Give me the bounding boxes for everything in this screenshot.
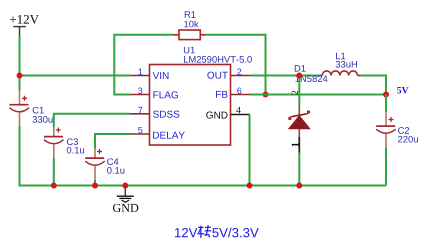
resistor R1 10k — [174, 30, 206, 40]
node 5V junction — [383, 92, 389, 98]
net label 5V — [397, 87, 408, 94]
node C3/rail — [51, 183, 57, 189]
wire R1 left to FLAG pin — [114, 35, 173, 95]
wire bottom ground rail — [54, 185, 386, 187]
inductor L1 33uH — [321, 53, 361, 76]
capacitor C4 0.1u — [85, 149, 105, 181]
node junction +12V/VIN/C1 — [17, 73, 23, 79]
pin 2 OUT — [207, 69, 250, 79]
capacitor C3 0.1u — [44, 127, 64, 158]
IC U1 LM2590HVT-5.0 body — [150, 65, 231, 146]
wire +12V down to VIN node — [19, 36, 21, 76]
wire OUT row to L1 — [250, 75, 321, 77]
wire VIN row — [20, 75, 130, 77]
wire pin4 down to rail — [249, 115, 251, 186]
power flag +12V bar symbol — [13, 27, 26, 36]
capacitor C2 220u — [376, 112, 396, 148]
node GND/rail — [122, 183, 128, 189]
ground label GND — [113, 204, 138, 212]
value 330u — [33, 116, 53, 123]
node D1/OUT row — [296, 73, 302, 79]
wire SDSS row from C3 — [54, 114, 130, 127]
ground symbol — [117, 186, 134, 203]
title 12V to 5V/3.3V — [175, 225, 259, 238]
pin 1 VIN — [130, 69, 169, 79]
comment LM2590HVT-5.0 — [184, 56, 252, 63]
node pin4/rail — [247, 183, 253, 189]
wire C2 to rail — [385, 148, 387, 186]
label C4 — [107, 158, 118, 165]
value 10k — [184, 20, 198, 27]
capacitor C1 330u — [10, 90, 30, 126]
label C2 — [398, 127, 409, 134]
pin 5 DELAY — [130, 127, 185, 138]
diode D1 1N5824 — [289, 65, 328, 185]
label C3 — [67, 138, 78, 145]
pin 7 SDSS — [130, 107, 179, 118]
value 220u — [398, 136, 418, 143]
wire C4 to rail — [94, 180, 96, 186]
pin 3 FLAG — [130, 88, 178, 99]
label C1 — [33, 107, 44, 114]
node C4/rail — [92, 183, 98, 189]
node R1/FB — [263, 92, 269, 98]
wire C1 branch down — [19, 76, 21, 91]
wire DELAY row from C4 — [95, 134, 130, 149]
pin 4 GND — [206, 107, 250, 119]
wire R1 right down to FB row — [206, 35, 266, 95]
wire FB row to 5V node — [250, 94, 386, 96]
power flag +12V label — [10, 15, 39, 24]
value 0.1u — [67, 147, 84, 154]
value 0.1u — [107, 167, 124, 174]
designator U1 — [184, 47, 195, 54]
wire C1 to bottom rail — [20, 126, 54, 186]
pin 6 FB — [216, 88, 250, 98]
node D1/rail — [296, 183, 302, 189]
wire C3 to rail — [53, 158, 55, 186]
wire 5V down to C2 — [385, 95, 387, 113]
wire L1 right down to 5V node — [361, 76, 387, 95]
label R1 — [185, 11, 196, 17]
